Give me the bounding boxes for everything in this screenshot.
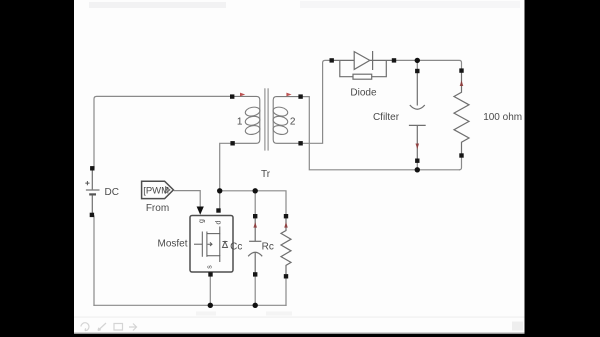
- terminal: DC minus: [90, 213, 94, 217]
- wire: transformer primary bottom to drain node: [220, 143, 231, 191]
- red current arrow at secondary top: [286, 93, 291, 97]
- diode cathode bar: [372, 51, 374, 70]
- terminal: transformer primary top: [230, 94, 234, 98]
- svg-text:DC: DC: [105, 187, 119, 198]
- wire: secondary bottom right and up to diode anode: [302, 60, 330, 143]
- DC source battery: [85, 170, 99, 213]
- wire: Cc bottom stub to bottom rail: [254, 276, 256, 305]
- wire: secondary top right, down and to output bottom rail: [302, 97, 460, 170]
- wire: mosfet source stub to bottom rail: [209, 276, 211, 305]
- faint toolbar remnant top-right: [300, 1, 520, 8]
- red current arrow Cfilter: [416, 144, 420, 150]
- terminal: Cfilter bottom: [415, 159, 419, 163]
- terminal: Cfilter top: [415, 69, 419, 73]
- diode main wire: [333, 59, 394, 61]
- svg-text:Cc: Cc: [230, 241, 242, 252]
- wire: DC- down to bottom rail: [93, 216, 95, 305]
- wire: diode cathode to output top node: [396, 60, 462, 69]
- wire: DC+ up and across to transformer primary top: [94, 96, 231, 168]
- transformer U: core: [265, 88, 268, 150]
- wire: output bottom corner up to load resistor: [460, 158, 462, 170]
- red current arrow load resistor: [460, 80, 464, 86]
- svg-text:g: g: [199, 219, 206, 223]
- bottom grey transition: [74, 333, 525, 334]
- terminal: diode cathode: [392, 58, 396, 62]
- mosfet internal symbol: [194, 227, 228, 263]
- diode snubber path: [340, 60, 387, 76]
- terminal: Rc bottom: [284, 274, 288, 278]
- svg-text:100 ohm: 100 ohm: [483, 112, 522, 123]
- svg-text:Mosfet: Mosfet: [157, 238, 187, 249]
- white schematic canvas: [74, 0, 525, 334]
- terminal: mosfet source: [208, 272, 212, 276]
- faint toolbar remnant top-left: [89, 2, 226, 8]
- red current arrow Cc: [253, 222, 257, 228]
- plus sign of DC source: [85, 181, 89, 185]
- terminal: load resistor top: [459, 68, 463, 72]
- faint mark bottom-right: [512, 322, 523, 331]
- svg-text:d: d: [216, 220, 223, 224]
- terminal: load resistor bottom: [459, 153, 463, 157]
- terminal: diode anode: [330, 58, 334, 62]
- capacitor Cfilter: [409, 73, 426, 160]
- diode snubber resistor box: [353, 74, 372, 79]
- svg-text:Diode: Diode: [350, 88, 377, 99]
- terminal: DC plus: [90, 166, 94, 170]
- faint toolbar icons bottom-left: [81, 323, 137, 331]
- svg-text:Rc: Rc: [262, 241, 274, 252]
- terminal: Cc bottom: [253, 272, 257, 276]
- junction dot: Cc top node: [253, 188, 258, 193]
- wire: PWM From to mosfet gate: [174, 191, 200, 207]
- transformer secondary winding 2: [272, 97, 302, 144]
- wire: Cc top stub: [254, 191, 256, 214]
- mosfet body diode: [223, 242, 228, 248]
- junction dot: output bottom node: [415, 167, 420, 172]
- red current arrow Rc: [284, 222, 288, 228]
- svg-text:Tr: Tr: [261, 169, 271, 180]
- small arrow inside tag tip: [166, 187, 170, 193]
- capacitor Cc: [248, 218, 262, 273]
- wire: bottom rail: [94, 304, 286, 306]
- wire: Rc bottom stub to bottom rail: [285, 278, 287, 305]
- resistor Rc: [281, 218, 291, 274]
- load resistor 100 ohm: [454, 73, 469, 154]
- terminal: Rc top: [284, 214, 288, 218]
- diode triangle: [354, 52, 370, 70]
- transformer primary winding 1: [231, 96, 261, 143]
- faint status separator line: [74, 317, 525, 318]
- svg-text:From: From: [146, 203, 169, 214]
- svg-text:[PWM: [PWM: [143, 186, 169, 197]
- junction dot: diode/Cfilter top node: [415, 58, 420, 63]
- wire: Cfilter bottom stub: [416, 163, 418, 170]
- wire: drain node across to Cc and Rc tops: [220, 191, 286, 214]
- svg-text:2: 2: [290, 117, 296, 128]
- mosfet block Q1 outline: [190, 216, 233, 273]
- terminal: Cc top: [253, 214, 257, 218]
- svg-text:1: 1: [237, 117, 243, 128]
- junction dot: source on bottom rail: [208, 303, 213, 308]
- bottom black strip: [0, 334, 600, 337]
- faint status smudges: [196, 312, 216, 316]
- mosfet gate input arrow: [197, 207, 204, 215]
- terminal: transformer secondary bottom: [298, 141, 302, 145]
- wire: drain node down to mosfet drain: [219, 191, 221, 209]
- diode D1 block: [333, 51, 394, 79]
- left letterbox bar: [0, 0, 74, 337]
- mosfet channel arrow: [208, 242, 213, 246]
- junction dot: Cc on bottom rail: [253, 303, 258, 308]
- svg-text:Cfilter: Cfilter: [373, 112, 400, 123]
- terminal: transformer primary bottom: [230, 141, 234, 145]
- junction dot: drain node: [217, 188, 222, 193]
- terminal: mosfet drain: [216, 208, 220, 212]
- PWM From tag block: [142, 181, 174, 198]
- wire: Cfilter top stub: [416, 60, 418, 69]
- svg-text:s: s: [207, 265, 214, 269]
- right letterbox bar: [525, 0, 600, 337]
- terminal: transformer secondary top: [298, 94, 302, 98]
- red current arrow at primary top: [240, 93, 245, 97]
